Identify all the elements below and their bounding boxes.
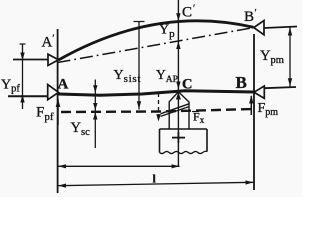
svg-text:C: C <box>182 77 192 93</box>
svg-text:A: A <box>58 77 69 93</box>
svg-text:B: B <box>236 73 247 92</box>
